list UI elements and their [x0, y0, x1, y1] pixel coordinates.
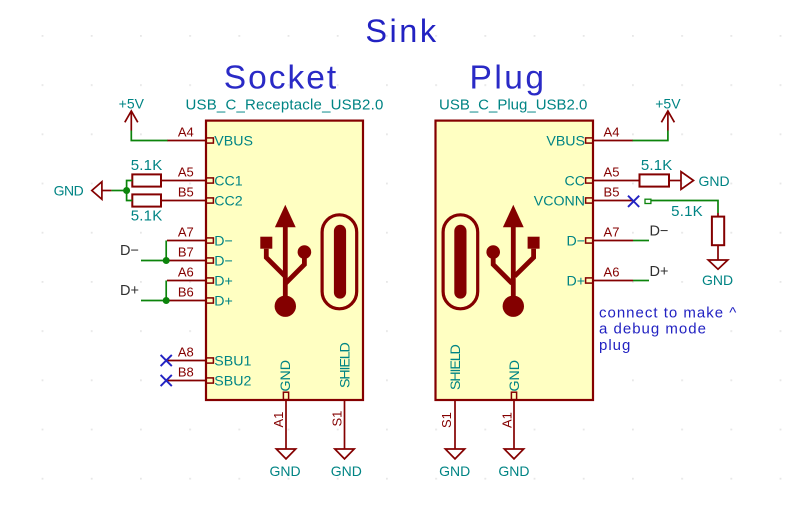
wire resistor to GND [717, 245, 719, 260]
pin A8 SBU1 wire [167, 360, 206, 362]
pin B5 CC2 wire [161, 200, 206, 202]
svg-text:Socket: Socket [224, 60, 338, 97]
wire end square (unconnected) [645, 199, 651, 203]
svg-text:connect to make ^: connect to make ^ [599, 305, 737, 322]
J1 pin numbers [178, 125, 345, 428]
svg-text:+5V: +5V [655, 95, 681, 111]
svg-text:D−: D− [120, 243, 139, 259]
resistor R_CC2 5.1K [132, 194, 161, 206]
svg-text:Plug: Plug [469, 60, 546, 97]
power GND (below R_VCONN) [708, 260, 728, 269]
pin B5 VCONN wire [593, 200, 633, 202]
pin A5 CC wire [593, 180, 640, 182]
junction B6 [163, 297, 170, 304]
J1 left pin lines [161, 141, 345, 450]
svg-text:CC1: CC1 [214, 174, 242, 190]
svg-text:A4: A4 [178, 125, 194, 140]
no-connect X on B8 [161, 375, 172, 386]
svg-text:GND: GND [269, 463, 300, 479]
power +5V (right) [661, 111, 674, 131]
wire D- to B7/A7 [141, 241, 166, 261]
svg-text:A6: A6 [604, 265, 620, 280]
J1 USB-C oval icon [322, 215, 357, 309]
svg-text:GND: GND [702, 272, 733, 288]
svg-text:GND: GND [278, 360, 294, 392]
svg-text:SHIELD: SHIELD [338, 342, 354, 388]
wire resistor join [111, 181, 132, 201]
J2 USB trident icon [486, 205, 539, 317]
connector J1 body (Socket) [206, 121, 363, 400]
J2 pin numbers [439, 125, 619, 429]
svg-text:B8: B8 [178, 365, 194, 380]
power GND (below J2 A1) [504, 449, 523, 459]
svg-text:USB_C_Plug_USB2.0: USB_C_Plug_USB2.0 [439, 97, 587, 114]
svg-text:B7: B7 [178, 245, 194, 260]
pin B6 D+ wire [167, 300, 206, 302]
pin A7 D- wire [167, 240, 206, 242]
svg-text:A6: A6 [178, 265, 194, 280]
wire resistor to GND arrow [669, 180, 681, 182]
svg-text:D−: D− [566, 234, 585, 250]
svg-text:SBU2: SBU2 [214, 374, 251, 390]
svg-text:GND: GND [699, 173, 730, 189]
power GND (right arrow) [681, 172, 694, 190]
svg-text:VBUS: VBUS [214, 134, 253, 150]
svg-text:S1: S1 [330, 411, 345, 427]
svg-text:A1: A1 [499, 412, 514, 428]
no-connect X on A8 [161, 355, 172, 366]
J1 USB trident icon [260, 205, 311, 317]
wire A4 to +5V (right) [633, 131, 668, 141]
svg-text:A5: A5 [604, 165, 620, 180]
pin A1 GND wire [513, 400, 515, 449]
svg-text:B6: B6 [178, 285, 194, 300]
svg-text:D+: D+ [214, 294, 233, 310]
power GND (below J1 S1) [335, 449, 354, 459]
svg-text:GND: GND [439, 463, 470, 479]
power GND (below J1 A1) [276, 449, 295, 459]
svg-text:B5: B5 [604, 185, 620, 200]
svg-text:USB_C_Receptacle_USB2.0: USB_C_Receptacle_USB2.0 [185, 97, 383, 114]
pin S1 SHIELD wire [344, 400, 346, 449]
resistor R_CC1 5.1K [132, 174, 161, 186]
svg-text:Sink: Sink [365, 13, 438, 49]
svg-text:GND: GND [507, 360, 523, 392]
J2 pin stubs [511, 138, 593, 400]
pin A7 D- wire [593, 240, 633, 242]
J1 pin stubs [206, 138, 289, 400]
junction B7 [163, 257, 170, 264]
pin A5 CC1 wire [161, 180, 206, 182]
svg-text:SHIELD: SHIELD [448, 344, 464, 390]
svg-text:5.1K: 5.1K [671, 203, 703, 220]
svg-text:SBU1: SBU1 [214, 354, 251, 370]
wire VCONN pullup [651, 201, 718, 214]
svg-text:D+: D+ [214, 274, 233, 290]
pin S1 SHIELD wire [454, 400, 456, 449]
svg-text:B5: B5 [178, 185, 194, 200]
wire A7 stub [633, 240, 649, 242]
svg-text:A8: A8 [178, 345, 194, 360]
svg-text:VCONN: VCONN [534, 194, 585, 210]
J1 pin names [214, 134, 353, 392]
svg-text:D+: D+ [120, 283, 139, 299]
svg-text:A4: A4 [604, 125, 620, 140]
svg-text:A7: A7 [604, 225, 620, 240]
svg-text:A7: A7 [178, 225, 194, 240]
svg-text:5.1K: 5.1K [131, 208, 163, 225]
pin A1 GND wire [285, 400, 287, 449]
no-connect X on B5 VCONN [628, 196, 639, 207]
pin B7 D- wire [167, 260, 206, 262]
pin B8 SBU2 wire [167, 380, 206, 382]
svg-text:GND: GND [498, 463, 529, 479]
svg-text:D+: D+ [650, 264, 669, 280]
note text [599, 305, 737, 354]
svg-text:plug: plug [599, 337, 631, 354]
J2 pin names [448, 134, 585, 392]
power GND (left arrow) [92, 182, 112, 200]
pin A6 D+ wire [593, 280, 633, 282]
wire +5V to A4 [131, 131, 167, 141]
J2 right pin lines [455, 141, 640, 450]
svg-text:D−: D− [650, 224, 669, 240]
resistor R_CC 5.1K (right) [640, 174, 670, 186]
power GND (below J2 S1) [445, 449, 464, 459]
svg-text:CC2: CC2 [214, 194, 242, 210]
J2 USB-C oval icon [443, 215, 478, 309]
svg-text:VBUS: VBUS [546, 134, 585, 150]
svg-text:D−: D− [214, 234, 233, 250]
power +5V (left) [125, 111, 138, 131]
pin A4 VBUS wire [167, 140, 206, 142]
wire A6 stub [633, 280, 649, 282]
svg-text:5.1K: 5.1K [131, 157, 163, 174]
svg-text:CC: CC [565, 174, 586, 190]
svg-text:GND: GND [54, 183, 84, 199]
pin A4 VBUS wire [593, 140, 633, 142]
svg-text:A1: A1 [271, 412, 286, 428]
junction (resistor join) [123, 187, 130, 194]
connector J2 body (Plug) [436, 121, 594, 400]
resistor R_VCONN 5.1K (vertical) [717, 213, 719, 217]
pin A6 D+ wire [167, 280, 206, 282]
svg-text:GND: GND [331, 463, 362, 479]
svg-text:5.1K: 5.1K [641, 157, 673, 174]
svg-text:D−: D− [214, 254, 233, 270]
svg-text:A5: A5 [178, 165, 194, 180]
svg-text:D+: D+ [566, 274, 585, 290]
svg-text:a debug mode: a debug mode [599, 321, 707, 338]
svg-text:S1: S1 [439, 412, 454, 428]
svg-text:+5V: +5V [119, 95, 145, 111]
wire D+ to B6/A6 [141, 281, 166, 301]
